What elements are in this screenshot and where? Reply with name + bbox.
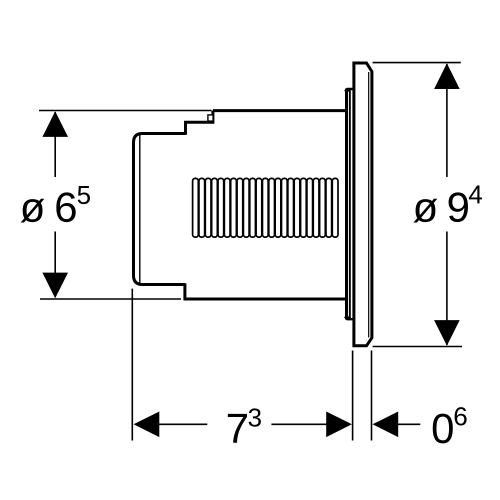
flange white sliver [347, 92, 349, 317]
label o94 superscript 4 [469, 186, 482, 204]
cover plate bevel line [368, 72, 370, 338]
arrow o65 down [42, 273, 68, 299]
dim ext line top left (o65) [39, 110, 212, 112]
label 73 digit 7 [228, 414, 247, 443]
arrow o94 up [434, 63, 460, 89]
dim ext line bottom left (o65) [40, 298, 181, 300]
dim ext line bottom right (o94) [373, 346, 462, 348]
dim line o94 vertical [446, 64, 448, 177]
dim ext line 73 left vertical [131, 289, 133, 441]
label o94 digit 9 [449, 192, 468, 222]
dim line o65 vertical [54, 112, 56, 177]
label o65 digit 6 [56, 192, 75, 222]
label o94 diameter sign [414, 199, 438, 223]
step up from button to collar [186, 111, 213, 135]
arrow 73 right [326, 412, 352, 438]
label 06 superscript 6 [455, 407, 467, 425]
main tube top edge [213, 109, 347, 112]
label o65 diameter sign [21, 199, 45, 223]
flange bottom edge [345, 317, 354, 320]
label 06 digit 0 [433, 414, 453, 444]
button cap outline [134, 134, 186, 285]
dim ext line 06 left vertical [352, 351, 354, 441]
label o65 superscript 5 [78, 186, 90, 204]
arrow o65 up [42, 111, 68, 137]
step down from button to tube bottom [185, 283, 347, 299]
arrow 73 left [134, 412, 160, 438]
arrow o94 down [434, 320, 460, 346]
button face line [139, 135, 141, 284]
small square notch detail [208, 115, 213, 121]
arrow 06 pointing left [373, 412, 399, 438]
dim line 06 tail [398, 423, 420, 425]
flange back plate dark band [345, 89, 351, 320]
dim ext line top right (o94) [373, 62, 461, 64]
thread ribs band [193, 178, 338, 237]
label 73 superscript 3 [249, 408, 261, 426]
flange top edge [345, 89, 354, 92]
dim ext line 06 right vertical [371, 351, 373, 441]
dim line 73 horizontal [158, 423, 207, 425]
cover plate outline [354, 63, 372, 346]
